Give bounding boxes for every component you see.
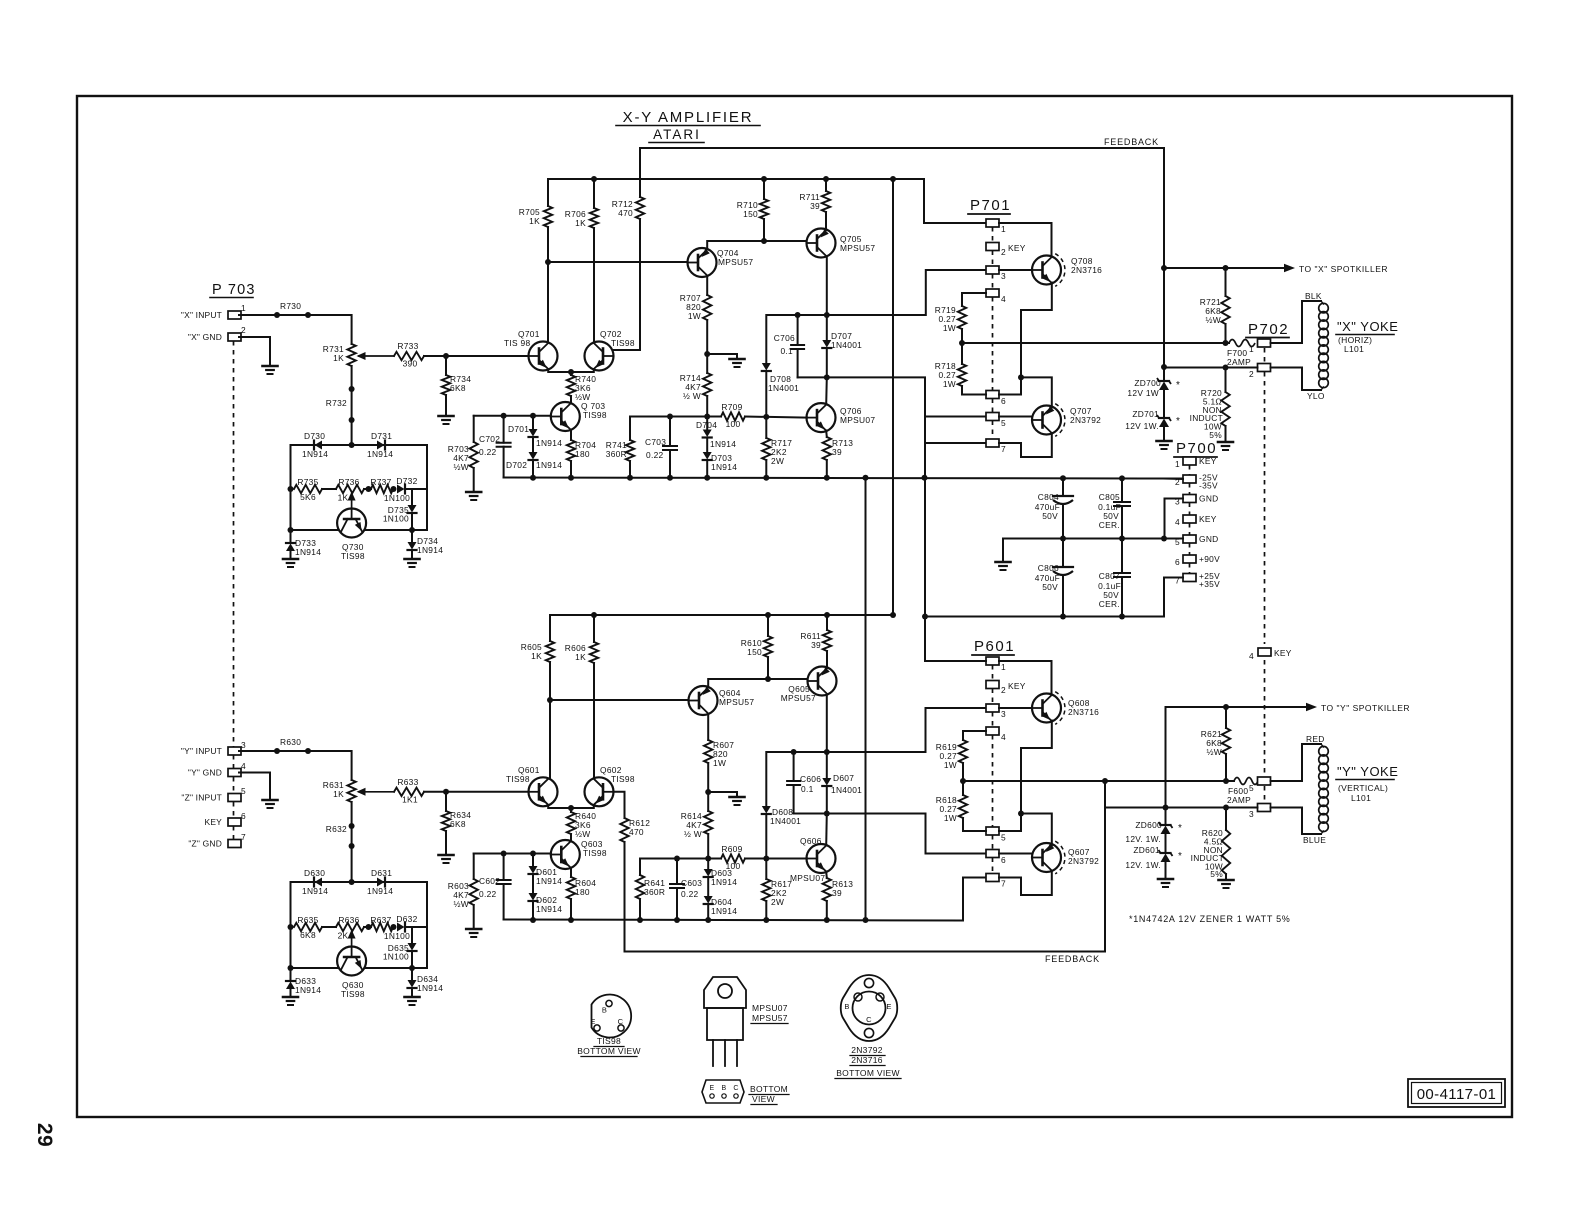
svg-text:TIS98: TIS98 (611, 338, 635, 348)
svg-text:1: 1 (1175, 459, 1180, 469)
junction (761, 238, 767, 244)
connector P601 pin 4 (986, 727, 999, 735)
svg-text:P 703: P 703 (212, 282, 256, 298)
junction (568, 475, 574, 481)
svg-text:R633: R633 (397, 777, 418, 787)
wire pin5 to Y yoke (1271, 744, 1322, 781)
svg-text:1N4001: 1N4001 (831, 785, 862, 795)
svg-text:BLK: BLK (1305, 291, 1322, 301)
svg-text:P701: P701 (970, 197, 1011, 214)
svg-text:BOTTOM VIEW: BOTTOM VIEW (836, 1068, 900, 1078)
transistor Q701 (529, 342, 558, 371)
junction (763, 414, 769, 420)
wire Q603 base line (474, 853, 551, 855)
junction (1060, 475, 1066, 481)
wire Q602 emitter to R640 (571, 805, 594, 808)
diode D601 (532, 854, 534, 867)
svg-text:C804: C804 (1038, 492, 1059, 502)
diode D607 (826, 752, 828, 778)
transistor Q602 (585, 777, 614, 806)
svg-text:2K: 2K (338, 931, 349, 941)
svg-text:100: 100 (726, 419, 741, 429)
wire pin3 line Y (1105, 807, 1258, 809)
resistor R637 (371, 923, 393, 931)
svg-text:3: 3 (1249, 809, 1254, 819)
svg-text:D701: D701 (508, 424, 529, 434)
svg-text:R630: R630 (280, 737, 301, 747)
wire clamp box left Y (290, 882, 292, 968)
wire pin4 stub Y (963, 730, 986, 732)
ground D733 (290, 558, 292, 560)
junction (959, 340, 965, 346)
junction (824, 749, 830, 755)
svg-text:ZD701: ZD701 (1132, 409, 1159, 419)
connector P601 pin 7 (986, 874, 999, 882)
svg-text:4: 4 (241, 761, 246, 771)
junction (1223, 340, 1229, 346)
svg-text:1W: 1W (713, 758, 726, 768)
wire node Y input (239, 751, 352, 780)
dashed harness P701 (992, 227, 994, 243)
capacitor C805 (1121, 478, 1123, 502)
wire Q704 base (548, 261, 687, 263)
svg-text:½ W: ½ W (683, 391, 701, 401)
resistor R614 (704, 811, 712, 834)
transistor Q702 (585, 342, 614, 371)
svg-text:MPSU07: MPSU07 (790, 873, 825, 883)
arrow spotkiller X (1284, 264, 1295, 272)
resistor R710 (763, 179, 765, 199)
case arc Q607 (1055, 841, 1065, 874)
svg-text:470: 470 (629, 827, 644, 837)
svg-text:P702: P702 (1248, 321, 1289, 338)
wire Q603 emitter (570, 868, 572, 877)
svg-text:2: 2 (241, 325, 246, 335)
svg-text:TIS98: TIS98 (583, 848, 607, 858)
svg-text:6: 6 (1001, 396, 1006, 406)
resistor R619 (962, 731, 964, 740)
junction (637, 917, 643, 923)
wire pin3 to Y yoke (1271, 808, 1322, 835)
svg-text:2N3716: 2N3716 (851, 1055, 883, 1065)
junction (288, 527, 294, 533)
svg-text:1K: 1K (531, 651, 542, 661)
wire clamp box top Y (291, 881, 428, 883)
junction (824, 811, 830, 817)
junction (409, 965, 415, 971)
svg-text:39: 39 (832, 888, 842, 898)
diode D634 (411, 968, 413, 980)
svg-text:1: 1 (1249, 344, 1254, 354)
svg-text:1N914: 1N914 (417, 983, 443, 993)
svg-text:B: B (844, 1002, 849, 1011)
junction (1060, 614, 1066, 620)
ground D734 (411, 558, 413, 560)
junction (960, 778, 966, 784)
resistor R711 (825, 179, 827, 191)
transistor Q703 (551, 402, 580, 431)
svg-text:C: C (866, 1015, 872, 1024)
resistor R734 (445, 356, 447, 375)
junction (674, 856, 680, 862)
zener ZD701 (1159, 419, 1169, 428)
dashed harness P702 lower (1264, 660, 1266, 776)
wire Q630 emitter line (291, 967, 338, 969)
diode D630 (315, 878, 323, 887)
case arc Q608 (1055, 692, 1065, 725)
diode D730 (315, 441, 323, 450)
svg-text:1N914: 1N914 (711, 462, 737, 472)
svg-text:½W: ½W (1207, 747, 1223, 757)
svg-text:7: 7 (1001, 879, 1006, 889)
connector P701 pin 5 (986, 413, 999, 421)
connector P702 pin 2 (1258, 364, 1271, 372)
diode D732 (397, 485, 405, 494)
svg-text:00-4117-01: 00-4117-01 (1417, 1086, 1497, 1103)
svg-text:FEEDBACK: FEEDBACK (1045, 954, 1100, 964)
svg-text:39: 39 (832, 447, 842, 457)
connector P700 pin 4 (1183, 515, 1196, 523)
ground R634 (445, 854, 447, 856)
svg-text:"X" GND: "X" GND (188, 332, 222, 342)
wire yoke drive Y (963, 780, 1234, 782)
wire P601 pin1 drop (925, 660, 986, 662)
diode D633 (290, 968, 292, 980)
svg-text:R637: R637 (370, 915, 391, 925)
wire P700 pin3 gnd (1165, 499, 1184, 539)
svg-text:TO "Y" SPOTKILLER: TO "Y" SPOTKILLER (1321, 703, 1410, 713)
svg-text:ZD600: ZD600 (1135, 820, 1162, 830)
resistor R613 (825, 872, 828, 879)
resistor R719 (961, 293, 963, 306)
svg-text:(VERTICAL): (VERTICAL) (1338, 783, 1388, 793)
svg-text:*: * (1176, 380, 1180, 391)
svg-text:4: 4 (1175, 517, 1180, 527)
svg-text:2: 2 (1001, 247, 1006, 257)
resistor R706 (593, 179, 595, 208)
connector P701 pin 3 (986, 266, 999, 274)
wire P700 pin7 rail (925, 578, 1183, 617)
ground mid X (736, 358, 738, 360)
svg-text:B: B (602, 1006, 607, 1015)
border frame (77, 96, 1512, 1117)
wire feedback top (640, 147, 1164, 149)
junction (863, 917, 869, 923)
svg-text:7: 7 (241, 832, 246, 842)
junction (409, 527, 415, 533)
connector P700 pin 7 (1183, 574, 1196, 582)
connector P701 pin 7 (986, 439, 999, 447)
svg-text:R709: R709 (721, 402, 742, 412)
resistor R606 (593, 615, 595, 642)
junction (705, 789, 711, 795)
svg-text:KEY: KEY (1008, 243, 1026, 253)
svg-text:*: * (1176, 416, 1180, 427)
junction (763, 856, 769, 862)
svg-text:5: 5 (1249, 783, 1254, 793)
dashed harness P601 (992, 665, 994, 681)
svg-text:50V: 50V (1042, 582, 1058, 592)
capacitor C804 (1062, 478, 1064, 496)
junction (349, 823, 355, 829)
junction (366, 924, 372, 930)
wire pin2 to ground (239, 337, 270, 365)
svg-text:1W: 1W (943, 323, 956, 333)
resistor R641y (639, 859, 641, 876)
svg-text:D607: D607 (833, 773, 854, 783)
transistor Q706 (807, 403, 836, 432)
svg-text:*: * (1178, 823, 1182, 834)
junction (568, 369, 574, 375)
svg-text:1N914: 1N914 (367, 449, 393, 459)
transistor Q708 (1032, 256, 1061, 285)
junction (824, 312, 830, 318)
junction (568, 917, 574, 923)
wire pin4 stub (962, 292, 986, 294)
junction (288, 924, 294, 930)
svg-text:½ W: ½ W (684, 829, 702, 839)
wire pin4 to ground (239, 773, 270, 800)
wire Y bottom rail (504, 878, 986, 921)
svg-text:1K: 1K (529, 216, 540, 226)
svg-text:1N914: 1N914 (302, 886, 328, 896)
capacitor C606 (793, 752, 795, 781)
wire pin7 to Q707 collector (999, 433, 1052, 457)
wire Q601 emitter to R640 (548, 805, 571, 808)
wire Q704 collector (707, 241, 806, 249)
svg-text:1N914: 1N914 (536, 460, 562, 470)
connector P702 pin 5 (1258, 777, 1271, 785)
resistor R609 (721, 854, 745, 862)
junction (1119, 536, 1125, 542)
svg-text:1N914: 1N914 (295, 985, 321, 995)
wire pin2 to X yoke (1271, 368, 1322, 391)
diode D603 (707, 859, 709, 870)
diode D703 (703, 452, 712, 460)
svg-text:GND: GND (1199, 534, 1219, 544)
capacitor C703 (669, 417, 671, 447)
svg-text:P700: P700 (1176, 440, 1217, 457)
resistor R634 (445, 792, 447, 811)
svg-text:470: 470 (618, 208, 633, 218)
diode D735 (411, 489, 413, 505)
junction (443, 353, 449, 359)
svg-text:12V. 1W.: 12V. 1W. (1125, 834, 1161, 844)
svg-text:1K1: 1K1 (402, 795, 418, 805)
svg-text:R609: R609 (721, 844, 742, 854)
transistor Q704 (688, 248, 717, 277)
svg-text:*1N4742A 12V ZENER 1 WATT: *1N4742A 12V ZENER 1 WATT 5% (1129, 914, 1291, 924)
resistor R731 (pot) (347, 344, 355, 366)
ground mid Y (736, 796, 738, 798)
svg-text:ZD700: ZD700 (1134, 378, 1161, 388)
svg-text:Q606: Q606 (800, 836, 822, 846)
svg-text:C702: C702 (479, 434, 500, 444)
inductor Y yoke L101 (1319, 746, 1329, 756)
svg-text:1N914: 1N914 (367, 886, 393, 896)
wire R732 (351, 366, 353, 445)
svg-text:0.22: 0.22 (479, 889, 497, 899)
junction (674, 917, 680, 923)
wire feedback bottom (625, 951, 1106, 953)
svg-text:1N914: 1N914 (295, 547, 321, 557)
junction (1161, 265, 1167, 271)
connector P703 pin 5 (228, 794, 241, 802)
svg-text:D632: D632 (396, 914, 417, 924)
svg-text:0.22: 0.22 (479, 447, 497, 457)
svg-text:2AMP: 2AMP (1227, 357, 1251, 367)
wire node X input (239, 315, 352, 344)
junction (824, 917, 830, 923)
connector P601 pin 5 (986, 827, 999, 835)
svg-text:½W: ½W (454, 462, 470, 472)
wire R632 (351, 802, 353, 882)
dashed harness P700 (1189, 465, 1191, 475)
fuse F600 (1234, 778, 1258, 785)
zener ZD700 (1163, 377, 1165, 380)
svg-text:12V 1W.: 12V 1W. (1125, 421, 1159, 431)
svg-text:R635: R635 (297, 915, 318, 925)
svg-text:1W: 1W (944, 813, 957, 823)
wire Q701 base (446, 355, 529, 357)
wire pin5 to Q707 base (999, 416, 1032, 418)
svg-text:CER.: CER. (1099, 599, 1120, 609)
ground ZD601 (1165, 878, 1167, 880)
svg-text:1K: 1K (575, 652, 586, 662)
wire D732 out (406, 488, 427, 490)
junction (1223, 365, 1229, 371)
junction (530, 851, 536, 857)
svg-text:BOTTOM: BOTTOM (750, 1084, 788, 1094)
svg-text:2W: 2W (771, 456, 784, 466)
svg-text:3: 3 (241, 740, 246, 750)
diode D733 (290, 530, 292, 542)
ground R703 (473, 491, 475, 493)
svg-text:C: C (733, 1085, 738, 1092)
wire long vertical 893 (892, 179, 894, 615)
wire pin1 to Q608 collector (999, 661, 1052, 695)
svg-text:TIS98: TIS98 (611, 774, 635, 784)
svg-text:BLUE: BLUE (1303, 835, 1326, 845)
transistor Q603 (551, 840, 580, 869)
svg-text:L101: L101 (1351, 793, 1371, 803)
zener ZD600 (1165, 808, 1167, 825)
svg-text:2W: 2W (771, 897, 784, 907)
junction (823, 176, 829, 182)
wire Q707 emitter path (1021, 377, 1052, 407)
svg-text:D730: D730 (304, 431, 325, 441)
svg-text:KEY: KEY (1199, 514, 1217, 524)
resistor R611 (826, 615, 828, 630)
junction (568, 805, 574, 811)
svg-text:BOTTOM VIEW: BOTTOM VIEW (577, 1046, 641, 1056)
ground R720 (1225, 441, 1227, 443)
svg-text:1W: 1W (688, 311, 701, 321)
svg-text:TIS98: TIS98 (597, 1036, 621, 1046)
svg-text:½W: ½W (575, 829, 591, 839)
svg-text:+35V: +35V (1199, 579, 1220, 589)
resistor R720 (1225, 368, 1227, 393)
svg-text:150: 150 (743, 209, 758, 219)
wire Q730 emitter line (291, 529, 338, 531)
svg-text:6K8: 6K8 (300, 930, 316, 940)
wire R709 to Q706 base (745, 417, 807, 418)
junction (1060, 536, 1066, 542)
junction (1223, 265, 1229, 271)
svg-text:TO "X" SPOTKILLER: TO "X" SPOTKILLER (1299, 264, 1388, 274)
wire spotkiller X (1164, 267, 1286, 269)
svg-text:360R: 360R (606, 449, 627, 459)
ground R620 (1225, 879, 1227, 881)
resistor R621 (1225, 707, 1227, 728)
package TIS98 bottom view (592, 995, 632, 1038)
junction (667, 414, 673, 420)
svg-text:"Y" YOKE: "Y" YOKE (1337, 764, 1398, 779)
case arc Q708 (1055, 254, 1065, 287)
transistor Q705 (807, 229, 836, 258)
svg-text:5%: 5% (1210, 869, 1223, 879)
connector P700 pin 1 (1183, 457, 1196, 465)
diode D602 (529, 893, 538, 901)
svg-text:1N100: 1N100 (383, 514, 409, 524)
resistor R618 (959, 795, 967, 818)
svg-text:KEY: KEY (1274, 648, 1292, 658)
svg-text:"Y" GND: "Y" GND (188, 768, 222, 778)
svg-text:5: 5 (241, 786, 246, 796)
ground R734 (445, 415, 447, 417)
resistor R704 (567, 440, 575, 461)
svg-text:1: 1 (1001, 662, 1006, 672)
wire pin3 to Q708 base (999, 269, 1032, 271)
wire feedback vertical X (1163, 148, 1165, 377)
junction (288, 486, 294, 492)
diode D734 (411, 530, 413, 542)
svg-text:"X" YOKE: "X" YOKE (1337, 319, 1398, 334)
wire ground stub R707 (707, 354, 737, 358)
svg-text:C805: C805 (1099, 492, 1120, 502)
resistor R610 (767, 615, 769, 636)
svg-text:TIS98: TIS98 (341, 551, 365, 561)
junction (501, 413, 507, 419)
resistor R712 (639, 148, 641, 197)
wire long vertical 865 (865, 478, 867, 920)
wire D632 out (406, 926, 427, 928)
svg-text:2N3716: 2N3716 (1071, 265, 1102, 275)
junction (274, 748, 280, 754)
capacitor C706 (797, 315, 799, 345)
svg-text:C806: C806 (1038, 563, 1059, 573)
junction (705, 856, 711, 862)
connector P701 pin 2 (986, 243, 999, 251)
resistor R737 (371, 485, 393, 493)
junction (1018, 374, 1024, 380)
svg-text:"X" INPUT: "X" INPUT (181, 310, 222, 320)
svg-text:1N4001: 1N4001 (770, 816, 801, 826)
part number box (1408, 1079, 1505, 1107)
inductor X yoke L101 (1319, 303, 1329, 313)
capacitor C603 (676, 859, 678, 885)
junction (704, 475, 710, 481)
connector P700 pin 3 (1183, 495, 1196, 503)
transistor Q707 (1032, 406, 1061, 435)
junction (704, 414, 710, 420)
junction (1018, 811, 1024, 817)
junction (366, 486, 372, 492)
transistor Q607 (1032, 843, 1061, 872)
wire R709 node line (630, 416, 721, 418)
svg-text:1N914: 1N914 (711, 906, 737, 916)
svg-text:D630: D630 (304, 868, 325, 878)
